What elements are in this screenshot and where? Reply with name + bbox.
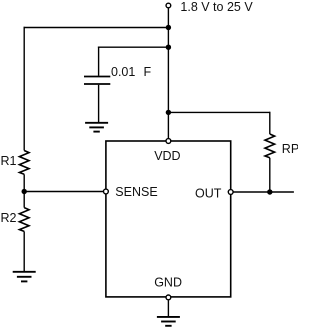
wire: main VDD vertical from supply terminal down to VDD pin	[167, 6, 169, 142]
ground: main ground	[157, 317, 180, 326]
pin GND	[166, 295, 171, 300]
supply terminal circle	[166, 3, 171, 8]
svg-text:GND: GND	[154, 275, 182, 289]
junction: capacitor branch to VDD vertical	[166, 45, 171, 50]
pin SENSE	[104, 189, 109, 194]
wire: GND lead to ground	[167, 300, 169, 317]
wire: OUT net horizontal top to pull-up	[168, 111, 269, 113]
resistor RP	[265, 134, 275, 158]
wire: left vertical between R1 and R2	[23, 174, 25, 207]
capacitor C 0.01 uF plates	[84, 77, 110, 85]
wire: left vertical down to R1	[23, 27, 25, 151]
wire: capacitor top lead	[98, 47, 100, 76]
svg-text:R1: R1	[1, 154, 17, 168]
resistor R1	[19, 151, 29, 175]
ground: R2 ground	[13, 272, 36, 282]
resistor R2	[19, 208, 29, 232]
junction: R1/R2/SENSE node	[22, 189, 27, 194]
wire: SENSE horizontal	[24, 191, 106, 193]
wire: capacitor branch horizontal	[98, 46, 168, 48]
wire: pull-up vertical upper lead	[269, 112, 271, 134]
svg-text:R2: R2	[1, 211, 17, 225]
svg-text:1.8 V to 25 V: 1.8 V to 25 V	[180, 0, 253, 14]
IC body U1	[106, 141, 231, 297]
junction: OUT net to VDD vertical	[166, 110, 171, 115]
svg-text:OUT: OUT	[195, 187, 222, 201]
svg-text:SENSE: SENSE	[115, 185, 157, 199]
wire: top horizontal from left branch to VDD vertical	[24, 27, 169, 29]
pin OUT	[228, 190, 233, 195]
svg-text:RP: RP	[282, 142, 298, 156]
junction: top wire to VDD vertical	[166, 25, 171, 30]
wire: capacitor bottom lead	[98, 85, 100, 123]
pin VDD	[166, 139, 171, 144]
junction: OUT to pull-up	[267, 189, 272, 194]
svg-text:F: F	[144, 65, 152, 79]
ground: capacitor ground	[85, 123, 108, 132]
wire: R2 bottom lead to ground	[23, 231, 25, 271]
svg-text:VDD: VDD	[154, 149, 180, 163]
wire: OUT horizontal from pin to edge	[231, 191, 294, 193]
wire: pull-up lower lead	[269, 158, 271, 192]
svg-text:0.01: 0.01	[111, 65, 135, 79]
